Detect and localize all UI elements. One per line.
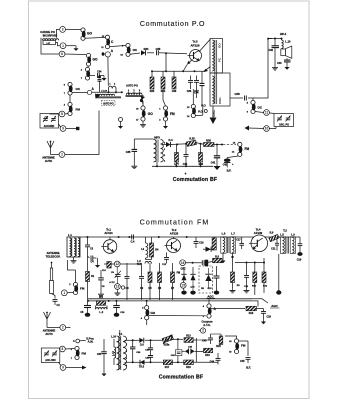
wire node10 to box [269, 127, 276, 129]
resistor R10v [212, 237, 216, 250]
variable capacitor CV1 [43, 116, 48, 122]
resistor R36 [161, 77, 165, 89]
svg-text:C42: C42 [223, 163, 228, 166]
label T.2 [283, 228, 287, 232]
wire OC3 to node11 [255, 112, 264, 113]
wire R13 right [193, 338, 210, 362]
wire R17 right [173, 361, 184, 363]
resistor R15a [162, 334, 173, 343]
switch FM4 [73, 282, 78, 294]
svg-text:GO: GO [148, 112, 153, 116]
label L4 [141, 248, 144, 251]
node 8 [59, 111, 65, 117]
node 10 [264, 126, 270, 132]
svg-text:R.35: R.35 [189, 138, 195, 141]
wire node8b to CVbox [59, 348, 62, 350]
label GO3 [136, 109, 153, 122]
wire antenna to node2 [51, 152, 60, 155]
svg-text:TR.5: TR.5 [139, 366, 145, 369]
label R4 [155, 249, 159, 252]
capacitor C33 [284, 58, 291, 64]
label L13 rot [112, 351, 115, 356]
label C43 [202, 339, 207, 342]
varcap osc fm 1 [181, 267, 186, 280]
svg-text:B.F.: B.F. [246, 365, 251, 369]
diode D5 [205, 268, 211, 289]
ground HP right [284, 65, 289, 70]
coil L1 block [67, 237, 80, 257]
labels C36 C37 [187, 90, 200, 93]
capacitor C5 [98, 270, 105, 292]
oscillator core [215, 40, 217, 104]
svg-text:A.M.: A.M. [88, 339, 94, 343]
svg-text:AF125: AF125 [170, 231, 179, 235]
wire T4 to D6 [125, 339, 140, 341]
node A2 [87, 90, 91, 94]
label R37 [174, 163, 179, 166]
svg-text:C35: C35 [156, 47, 161, 51]
wire R36h junction [214, 144, 223, 146]
svg-text:L.2: L.2 [99, 310, 103, 314]
switch FM6 [234, 339, 239, 354]
wire FM2 up [69, 95, 71, 103]
capacitor C43 [208, 334, 213, 344]
label MF3 [154, 136, 160, 140]
label D6 [140, 344, 144, 347]
CV osc box [274, 114, 294, 127]
svg-text:8: 8 [62, 347, 64, 351]
wire node2fm stub [66, 327, 71, 329]
title Commutation FM [140, 218, 210, 226]
label PC osc [218, 57, 222, 62]
svg-text:TELESCOP.: TELESCOP. [46, 255, 61, 259]
node 15 fm [180, 280, 186, 288]
svg-text:Commutation FM: Commutation FM [140, 218, 210, 226]
AFC dashed box [199, 266, 213, 293]
capacitor C35 [156, 47, 161, 55]
capacitor C4h [88, 256, 97, 264]
ground col97 [95, 258, 100, 268]
wire node11 to CVosc [269, 112, 274, 115]
svg-text:AF126: AF126 [190, 43, 199, 47]
svg-text:C43: C43 [202, 339, 207, 342]
svg-text:P.O: P.O [198, 110, 202, 114]
svg-text:L.6: L.6 [222, 231, 226, 235]
label Tr.2 AF125 [170, 228, 179, 236]
node 11 [264, 110, 270, 116]
wire L6L7 leads [220, 237, 233, 263]
wire node8 to FM2 [65, 113, 68, 116]
svg-text:C17: C17 [236, 240, 241, 242]
dashed wire to FM3 [223, 143, 236, 145]
autotransformer winding A [97, 94, 115, 96]
coil L3 [145, 261, 152, 263]
svg-text:R19: R19 [205, 354, 210, 357]
label L5 [111, 336, 116, 339]
coil L4 [146, 237, 148, 258]
contact circle [76, 339, 86, 343]
label R35 [150, 90, 155, 93]
ground C35d [131, 164, 137, 169]
switch GO1 [81, 28, 86, 40]
label ANTENNE TELESCOP [46, 251, 61, 258]
wire T2 sec down [278, 254, 280, 291]
svg-text:AUTO: AUTO [45, 332, 52, 336]
label R8h [215, 255, 219, 258]
svg-text:INCORPORE: INCORPORE [43, 34, 58, 37]
label Tr.3 AF126 [190, 40, 199, 48]
wire col87 bot [87, 282, 89, 301]
wire D6 right [145, 339, 164, 341]
wire right vertical bus [253, 38, 272, 98]
wire CVb to node9b [59, 363, 62, 366]
ground C31 [101, 371, 106, 376]
ground C5 [98, 292, 104, 297]
capacitor C14b [214, 266, 220, 291]
capacitor C35d [132, 149, 138, 164]
svg-text:C16: C16 [199, 243, 204, 245]
label R36 [161, 90, 166, 93]
svg-text:T.4: T.4 [119, 332, 123, 336]
autotransformer winding B [127, 93, 142, 95]
label L3 [137, 260, 142, 266]
transistor Tr1 [101, 237, 117, 253]
label C37b [145, 350, 150, 352]
node 2b [199, 328, 206, 333]
label 1 2 taps [109, 84, 116, 86]
svg-text:R15a: R15a [164, 343, 170, 346]
resistor R9v [230, 258, 241, 293]
svg-text:ACCORD: ACCORD [44, 125, 55, 128]
label L2 [99, 310, 103, 314]
wire MF3 to bus [156, 162, 158, 166]
capacitor C15 series [202, 260, 212, 265]
label C3 [90, 248, 94, 251]
resistor R4 [146, 237, 154, 260]
wire P1 up [193, 89, 203, 116]
svg-text:2: 2 [62, 326, 64, 330]
label C32 [269, 49, 274, 52]
capacitor C44 [216, 353, 221, 365]
svg-text:2: 2 [202, 329, 204, 333]
wire col87 top [87, 236, 89, 245]
label Coupure ATC [201, 319, 213, 326]
node 2 fm [60, 325, 66, 331]
svg-text:CADRE PO: CADRE PO [40, 30, 56, 34]
label FM1 [159, 109, 175, 122]
svg-text:3: 3 [62, 28, 64, 32]
wire D4 to R35h [171, 143, 188, 146]
label GO1 [87, 31, 92, 35]
label C40b [188, 345, 193, 348]
winding B taps [128, 90, 141, 95]
label C1 [57, 303, 61, 307]
svg-text:FM: FM [241, 344, 246, 348]
wire L1 left lead [71, 236, 73, 238]
svg-text:Coupure: Coupure [201, 319, 213, 323]
svg-text:C33: C33 [277, 62, 282, 65]
wire node9 to pin [66, 127, 79, 130]
svg-text:OSC.: OSC. [218, 96, 222, 104]
wire cadre to node 3 [57, 29, 60, 37]
wire OC1 to diode [130, 53, 140, 54]
capacitor C22 [297, 237, 302, 256]
capacitor C4 rail [118, 235, 188, 244]
label CADRE PO INCORPORE [40, 30, 57, 38]
capacitor C1 [53, 300, 58, 306]
label Commutation BF bottom [159, 375, 204, 381]
label C38 [235, 92, 241, 96]
label A2 [92, 87, 95, 91]
label BF bottom [246, 365, 251, 369]
oscillator box upper [210, 39, 223, 74]
svg-text:6: 6 [61, 52, 63, 56]
svg-text:FM: FM [177, 272, 180, 274]
svg-text:AF114: AF114 [104, 231, 113, 235]
switch GO2 [86, 53, 91, 66]
label L6 L7 [222, 231, 236, 235]
capacitor C38 [245, 96, 247, 101]
capacitor C32 [272, 39, 280, 66]
svg-text:R35: R35 [150, 90, 155, 93]
capacitor C37b [148, 340, 153, 349]
variable capacitor CVb2 [52, 351, 57, 357]
diode D4 [162, 142, 171, 147]
wire emitter bus drops [152, 71, 174, 77]
resistor R37 [175, 153, 179, 163]
capacitor C3 [85, 245, 90, 256]
svg-text:3: 3 [126, 358, 127, 360]
wire mast to C1 [52, 294, 56, 299]
svg-text:AUTO: AUTO [45, 159, 52, 163]
wire diode to C35 [147, 52, 154, 54]
label OC2 [64, 85, 81, 96]
ground osc fm 2 [190, 280, 195, 294]
wire node9b arrow [66, 366, 87, 370]
diode D6 [139, 338, 144, 343]
label R20 [216, 345, 221, 348]
resistor R19b [204, 348, 213, 353]
resistor R35h [186, 140, 196, 146]
coil L10 [282, 39, 284, 54]
svg-text:L.1: L.1 [68, 233, 72, 237]
label OC1 [120, 46, 138, 57]
wire FM6 right [239, 341, 249, 356]
resistor R5 [148, 263, 152, 300]
resistor R1 [86, 272, 90, 282]
dashed box AUTO PO [102, 100, 116, 105]
resistor R36h [204, 143, 215, 147]
svg-text:4 L19: 4 L19 [101, 90, 107, 93]
svg-text:C32: C32 [269, 49, 274, 52]
svg-text:FM: FM [170, 112, 175, 116]
switch FM5 [145, 306, 150, 320]
svg-text:C31: C31 [97, 353, 102, 356]
switch GO3 [141, 106, 146, 121]
svg-text:AGC: AGC [271, 304, 278, 308]
resistor R35 [150, 77, 154, 89]
label C44 [210, 360, 215, 363]
node 8b [60, 346, 66, 352]
svg-text:L.14: L.14 [111, 336, 116, 339]
switch FM7 [75, 346, 80, 359]
capacitor C42 [224, 156, 238, 168]
svg-text:C36: C36 [187, 90, 192, 93]
wire FM1 up [163, 89, 166, 106]
svg-text:R36: R36 [206, 139, 211, 143]
ground GO3 [140, 121, 146, 127]
label BF out [227, 169, 232, 173]
label AGC right [270, 304, 280, 308]
label L19 [101, 90, 107, 93]
wire FM6 top [225, 336, 237, 339]
oscillator box lower [210, 73, 230, 106]
capacitor C36 [188, 76, 193, 90]
label CV OSC PO [279, 124, 289, 127]
svg-text:+: + [185, 172, 187, 176]
diode R34 [141, 47, 149, 55]
transformer MF3 [154, 140, 164, 163]
svg-text:C1: C1 [57, 303, 61, 307]
capacitor C6 [125, 263, 130, 300]
wire antenna2 to node2fm [47, 322, 60, 328]
ground C19f [261, 319, 266, 324]
label ATC [109, 281, 115, 284]
blob T2 ground [276, 290, 281, 294]
wire FM4 up [68, 260, 76, 283]
resistor R13h [184, 338, 193, 343]
switch OC2 [68, 82, 73, 95]
svg-text:ANTENNE: ANTENNE [47, 251, 60, 255]
wire Tr3 emitter arrow [183, 60, 192, 72]
label R38 [199, 163, 204, 166]
svg-text:C.4: C.4 [131, 240, 135, 243]
capacitor C41 [214, 145, 220, 167]
transformer T4 [117, 336, 127, 370]
capacitor C34b [200, 71, 205, 106]
node 16 [180, 260, 186, 266]
ground C14b [214, 291, 219, 295]
ground C24 [114, 313, 120, 317]
ground C6b [85, 313, 91, 317]
svg-text:15: 15 [181, 283, 185, 287]
label CV accord 2 [45, 359, 56, 362]
label R36h [206, 139, 211, 143]
svg-text:FM: FM [245, 147, 250, 151]
wire top to R20 [211, 334, 222, 336]
svg-text:R17: R17 [165, 366, 170, 369]
wire node16 right [186, 262, 202, 264]
wire winding bus [92, 91, 123, 93]
plus mark [185, 172, 187, 176]
capacitor C13b [205, 260, 208, 267]
node 2 [59, 152, 65, 158]
coil L17 cadre PO [43, 39, 59, 41]
variable capacitor CV2 [51, 116, 56, 122]
node 3 [60, 27, 66, 33]
svg-text:OSC: OSC [181, 268, 186, 270]
trimmer C9t [115, 267, 121, 278]
switch OC3 [251, 100, 256, 113]
switch C3 [85, 67, 90, 80]
label ANTENNE AUTO fm [43, 329, 56, 336]
wire C42 box [171, 339, 182, 362]
label R2 [99, 295, 104, 299]
ground at node1 [73, 46, 78, 51]
svg-text:GO: GO [93, 58, 98, 62]
transistor Tr2 [165, 237, 181, 253]
label FM4 [69, 284, 85, 291]
svg-text:B.F.: B.F. [227, 169, 232, 173]
label R9d [270, 232, 274, 235]
label 47k [190, 286, 195, 289]
resistor R3 [104, 262, 114, 269]
antenna telescopic mast [50, 262, 54, 294]
wire C35 to MF3 top [134, 139, 153, 149]
svg-text:AGC: AGC [207, 294, 213, 298]
oscillator winding 1 [212, 40, 214, 71]
resistor R7 [171, 263, 175, 300]
label R35h [189, 138, 195, 141]
wire CV to node9 [59, 124, 61, 127]
svg-text:A.T.C.: A.T.C. [203, 323, 211, 327]
wire OC2 to A2 [72, 92, 88, 94]
wire cadre to node 1 [56, 43, 60, 46]
label R5b [102, 270, 106, 272]
label A top [111, 49, 114, 53]
svg-text:Commutation P.O: Commutation P.O [140, 21, 205, 28]
svg-text:AF139: AF139 [254, 231, 263, 235]
capacitor C38b [148, 350, 153, 362]
volume C46 arrows [182, 348, 196, 354]
svg-text:9: 9 [62, 366, 64, 370]
wire R15a right [172, 338, 183, 340]
wire FM5 leads [146, 301, 148, 325]
svg-text:Commutation BF: Commutation BF [173, 177, 218, 183]
node 9b [60, 365, 66, 371]
wire osc to C38 [230, 97, 243, 99]
ground oscillator [210, 106, 217, 124]
label R17 [165, 366, 170, 369]
resistor R17 [163, 360, 172, 365]
label OC3 [247, 103, 263, 114]
svg-text:C41: C41 [211, 162, 216, 165]
svg-text:C45: C45 [240, 360, 245, 363]
bus BF top-section [152, 165, 213, 167]
wire C35 to base Tr3 [159, 52, 187, 54]
svg-text:GO: GO [87, 31, 92, 35]
capacitor C31 [101, 339, 107, 371]
wire C3 to cap C34 [90, 75, 96, 77]
label C40 [183, 163, 188, 166]
resistor R8h [213, 258, 222, 263]
resistor R38 [199, 153, 203, 163]
wire R35h to R36h [196, 143, 204, 145]
label Tr.1 AF114 [104, 228, 113, 235]
label 4 contact [73, 339, 75, 343]
svg-text:R.8: R.8 [215, 255, 219, 258]
label L10 [285, 40, 291, 44]
wire T4 top [119, 330, 121, 336]
wire HP top [267, 38, 282, 40]
label GO2 [93, 58, 98, 62]
capacitor C14 [244, 263, 250, 293]
label C19f [267, 316, 272, 319]
svg-text:3: 3 [164, 155, 165, 157]
label C3 num [81, 69, 83, 81]
wire junction down [165, 53, 167, 71]
svg-text:AUTO PO: AUTO PO [126, 84, 138, 88]
